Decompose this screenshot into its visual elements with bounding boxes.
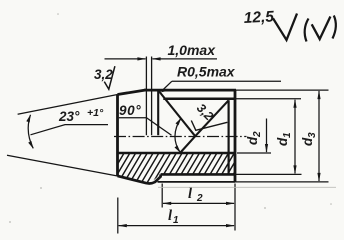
bottom edge of body (158, 181, 236, 183)
roughness mark 3,2 on countersink (191, 121, 227, 131)
svg-text:3,2: 3,2 (94, 67, 113, 82)
roughness mark 3,2 on cone (104, 66, 115, 89)
extension line right face down (234, 184, 236, 231)
hatch of section (104, 152, 253, 188)
outer cone bottom edge with blend to body (118, 174, 161, 183)
countersink cone lower-left line (180, 136, 195, 153)
faint scan artifact line (158, 186, 336, 188)
dimension 1,0max left line with arrow (105, 58, 146, 60)
dimension line d2 (266, 119, 268, 153)
svg-text:12,5: 12,5 (243, 8, 274, 27)
countersink cone right line (195, 100, 228, 136)
svg-text:1,0max: 1,0max (168, 42, 217, 58)
svg-text:3: 3 (307, 132, 318, 138)
svg-text:2: 2 (252, 131, 263, 138)
cylindrical band line 1 (145, 57, 147, 136)
extension line d1 bottom (235, 173, 302, 175)
leader R0,5max (162, 81, 281, 91)
svg-text:1: 1 (282, 132, 293, 138)
section hatch bottom line (161, 173, 235, 176)
leader and underline 90 degrees (119, 118, 172, 136)
cylindrical band line 2 (151, 57, 153, 136)
svg-text:l: l (188, 186, 192, 202)
angle arc 23 degrees (28, 115, 33, 149)
section lower bore line (hatch top) (118, 152, 236, 155)
svg-text:R0,5max: R0,5max (177, 64, 236, 80)
extension line l2 left (161, 184, 163, 208)
dimension line l1 (119, 225, 234, 227)
svg-text:90°: 90° (119, 103, 141, 118)
top extension line for d3 (236, 89, 329, 91)
cone angle extension line bottom (7, 155, 118, 176)
leader 23 degrees (31, 125, 109, 135)
svg-text:1: 1 (173, 215, 179, 226)
centerline (axis) (114, 136, 247, 138)
svg-text:3,2: 3,2 (194, 101, 216, 123)
entry face vertical line (157, 90, 159, 135)
svg-text:+1°: +1° (87, 107, 104, 119)
countersink cone upper-left line (158, 91, 195, 137)
angle arc 90 degrees (175, 118, 181, 152)
dimension line l2 (163, 202, 234, 204)
roughness symbol in parentheses (312, 17, 331, 40)
right parenthesis (333, 16, 336, 39)
cone angle extension line top (18, 95, 118, 115)
outer cone top edge (118, 90, 147, 95)
svg-text:2: 2 (196, 193, 203, 204)
top edge of body (144, 89, 236, 92)
right face of die (234, 90, 237, 182)
text d3 (300, 132, 318, 146)
dimension line d1 (294, 100, 296, 174)
text d2 (245, 131, 263, 145)
extension line d2 (237, 152, 271, 154)
text d1 (275, 132, 293, 146)
extension line l1 left (117, 198, 119, 234)
dimension line d3 (318, 91, 320, 181)
svg-text:l: l (168, 208, 172, 224)
svg-text:23°: 23° (58, 109, 80, 124)
extension line d1 top (235, 98, 301, 100)
bottom extension line for d3 (235, 181, 329, 183)
dimension 1,0max right line with arrow (153, 58, 218, 60)
roughness symbol 12,5 general (273, 14, 297, 41)
left parenthesis (305, 19, 309, 42)
left face of die (116, 95, 119, 176)
bore line d1 top (163, 98, 235, 101)
bore step vertical line (228, 100, 230, 174)
